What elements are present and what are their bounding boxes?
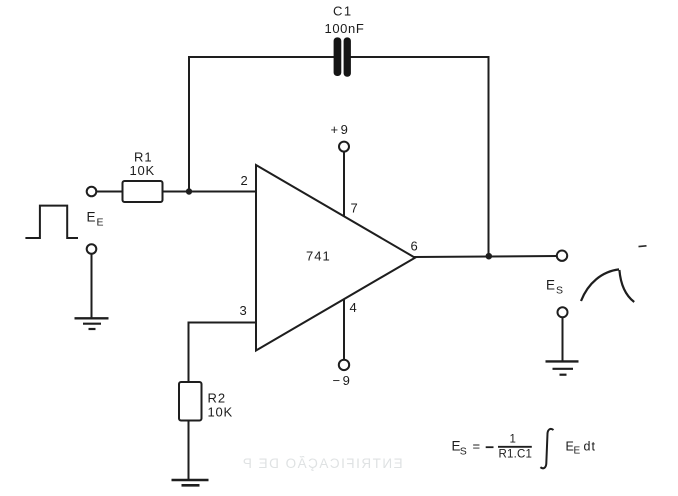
pin 7 label — [351, 201, 358, 216]
svg-text:S: S — [556, 285, 563, 297]
ground ES — [546, 361, 579, 374]
svg-text:R1.C1: R1.C1 — [499, 448, 533, 460]
label EE — [87, 210, 104, 229]
op-amp U1 triangle — [256, 165, 415, 351]
label 100nF — [325, 21, 365, 36]
pin 4 label — [350, 300, 357, 315]
label 741 — [306, 249, 331, 264]
wire pin 3 horizontal — [189, 322, 257, 324]
wire R2 to ground — [188, 421, 190, 480]
+9 supply terminal — [339, 142, 349, 152]
pin 3 label — [240, 303, 247, 318]
svg-text:dt: dt — [584, 440, 596, 454]
svg-text:S: S — [460, 446, 467, 458]
input square pulse symbol — [25, 206, 78, 238]
node B junction dot (output-feedback) — [486, 253, 493, 260]
svg-text:E: E — [574, 446, 581, 457]
wire feedback top horizontal left segment — [189, 56, 334, 58]
svg-text:100nF: 100nF — [325, 21, 365, 36]
label R2 — [208, 391, 227, 406]
ghost bleed-through text — [241, 456, 402, 471]
wire output pin 6 to terminal — [415, 256, 557, 257]
svg-text:6: 6 — [411, 239, 418, 254]
wire feedback right vertical — [488, 57, 490, 256]
output ramp waveform symbol — [581, 269, 634, 302]
svg-text:+9: +9 — [331, 122, 351, 137]
svg-text:E: E — [97, 217, 104, 229]
capacitor C1 — [334, 37, 351, 76]
stray mark — [639, 245, 647, 248]
svg-text:ENTRIFICAÇÃO DE P: ENTRIFICAÇÃO DE P — [241, 456, 402, 471]
svg-text:741: 741 — [306, 249, 331, 264]
label R2 value 10K — [208, 405, 234, 420]
wire pin 7 to +9 — [343, 152, 345, 216]
svg-text:10K: 10K — [208, 405, 234, 420]
svg-text:7: 7 — [351, 201, 358, 216]
pin 2 label — [241, 173, 248, 188]
wire EE terminal to ground — [91, 254, 93, 318]
svg-text:4: 4 — [350, 300, 357, 315]
wire feedback top-left vertical (node A to top) — [188, 57, 190, 192]
label C1 — [333, 4, 353, 19]
svg-text:−9: −9 — [333, 373, 353, 388]
label +9 — [331, 122, 351, 137]
label R1 — [134, 149, 153, 164]
svg-text:3: 3 — [240, 303, 247, 318]
wire input terminal to R1 — [97, 191, 123, 193]
label ES — [546, 278, 563, 297]
EE ground terminal circle — [87, 244, 97, 254]
label -9 — [333, 373, 353, 388]
ground EE — [75, 318, 109, 329]
ground R2 — [172, 480, 209, 485]
pin 6 label — [411, 239, 418, 254]
label R1 value 10K — [130, 163, 156, 178]
formula ES = -1/(R1.C1) integral EE dt — [452, 429, 596, 468]
svg-text:R2: R2 — [208, 391, 227, 406]
svg-text:1: 1 — [510, 434, 516, 446]
output terminal ES circle — [557, 251, 567, 261]
resistor R1 — [123, 181, 163, 202]
wire R1 to op-amp pin 2 — [163, 191, 257, 193]
svg-text:10K: 10K — [130, 163, 156, 178]
wire pin 3 vertical to R2 — [188, 323, 190, 383]
node A junction dot — [186, 188, 192, 194]
svg-text:E: E — [546, 278, 555, 293]
svg-text:=: = — [473, 439, 481, 454]
input terminal EE circle — [87, 187, 97, 197]
wire ES terminal to ground — [562, 317, 564, 361]
svg-text:E: E — [87, 210, 96, 225]
wire pin 4 to -9 — [343, 300, 345, 360]
svg-text:C1: C1 — [333, 4, 353, 19]
-9 supply terminal — [339, 360, 349, 370]
ES ground terminal circle — [558, 307, 568, 317]
resistor R2 — [179, 382, 202, 421]
integral sign — [540, 429, 553, 468]
wire feedback top horizontal right segment — [351, 56, 489, 58]
svg-text:2: 2 — [241, 173, 248, 188]
